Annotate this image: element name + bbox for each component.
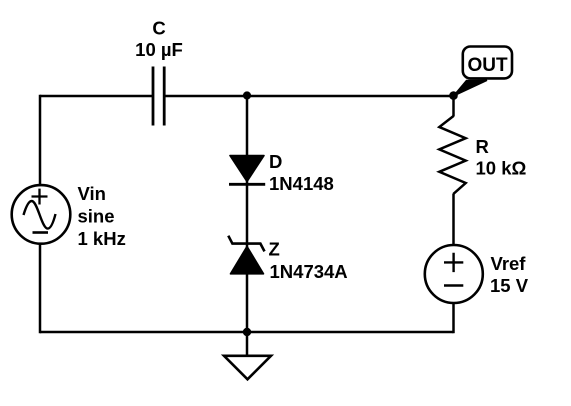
svg-text:15 V: 15 V bbox=[490, 275, 529, 296]
value 1N4734A bbox=[270, 261, 348, 282]
svg-text:1 kHz: 1 kHz bbox=[78, 228, 126, 249]
svg-text:Vref: Vref bbox=[491, 253, 527, 274]
junction dot top middle bbox=[243, 91, 251, 99]
svg-text:1N4148: 1N4148 bbox=[269, 173, 334, 194]
source Vref bbox=[425, 245, 483, 303]
label Vin bbox=[78, 183, 106, 204]
wire Vref to bottom bbox=[452, 303, 455, 334]
label C bbox=[152, 18, 165, 39]
wire node to resistor bbox=[452, 96, 455, 117]
zener Z bbox=[228, 236, 264, 274]
svg-text:1N4734A: 1N4734A bbox=[270, 261, 348, 282]
svg-text:C: C bbox=[152, 18, 165, 39]
value 10 kΩ bbox=[476, 158, 527, 179]
wire left vertical lower bbox=[39, 243, 42, 333]
svg-text:OUT: OUT bbox=[467, 55, 508, 76]
svg-text:Z: Z bbox=[269, 238, 280, 259]
svg-text:10 kΩ: 10 kΩ bbox=[476, 158, 527, 179]
wire top-right horizontal bbox=[165, 95, 454, 98]
label D bbox=[269, 151, 282, 172]
ground bbox=[224, 332, 271, 379]
source Vin (sine) bbox=[12, 185, 71, 244]
label Z bbox=[269, 238, 280, 259]
junction dot output node bbox=[449, 91, 458, 100]
svg-text:10 µF: 10 µF bbox=[135, 39, 183, 60]
svg-text:R: R bbox=[476, 136, 489, 157]
svg-text:D: D bbox=[269, 151, 282, 172]
svg-text:Vin: Vin bbox=[78, 183, 106, 204]
value 15 V bbox=[490, 275, 529, 296]
wire top-left horizontal bbox=[40, 95, 153, 98]
capacitor C bbox=[153, 67, 164, 126]
wire resistor to Vref bbox=[452, 194, 455, 246]
resistor R bbox=[439, 116, 465, 194]
label R bbox=[476, 136, 489, 157]
wire bottom horizontal bbox=[40, 331, 454, 334]
label Vref bbox=[491, 253, 527, 274]
junction dot bottom middle bbox=[243, 328, 251, 336]
label 1 kHz bbox=[78, 228, 126, 249]
value 10 µF bbox=[135, 39, 183, 60]
node OUT flag bbox=[454, 47, 513, 97]
diode D bbox=[229, 156, 265, 185]
value 1N4148 bbox=[269, 173, 334, 194]
label sine bbox=[78, 206, 115, 227]
svg-text:sine: sine bbox=[78, 206, 115, 227]
wire left vertical upper bbox=[39, 95, 42, 186]
wire middle branch vertical bbox=[246, 96, 249, 332]
